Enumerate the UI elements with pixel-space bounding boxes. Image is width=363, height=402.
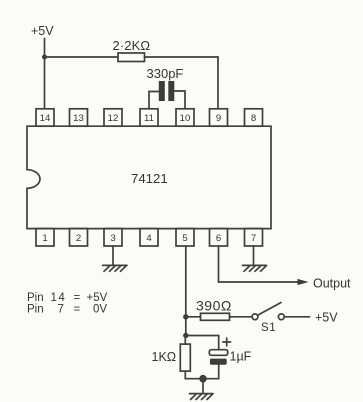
svg-text:1KΩ: 1KΩ	[152, 350, 177, 364]
pin 9	[210, 109, 228, 126]
node: pin 5 / R2 junction	[183, 314, 188, 319]
svg-text:12: 12	[108, 113, 119, 124]
switch S1 right contact	[278, 314, 284, 320]
pin 3	[104, 229, 122, 246]
wire pin 3 to ground	[112, 246, 114, 265]
svg-text:390Ω: 390Ω	[196, 298, 232, 314]
IC U1 74121 body outline with notch	[27, 126, 271, 228]
wire corner down to pin 9	[217, 57, 219, 109]
capacitor C1 right plate	[168, 81, 174, 101]
wire S1 to +5V	[284, 316, 309, 318]
pin 11	[140, 109, 158, 126]
svg-text:+5V: +5V	[31, 24, 54, 38]
wire junction down to R3	[184, 336, 186, 345]
pin 10	[176, 109, 194, 126]
svg-text:8: 8	[251, 113, 256, 124]
wire C2 to bottom rail	[218, 365, 220, 379]
resistor R2 body (390)	[201, 313, 230, 320]
svg-text:2·2KΩ: 2·2KΩ	[113, 38, 151, 53]
wire pin 11 to C1 left plate	[149, 92, 159, 109]
svg-text:330pF: 330pF	[147, 66, 184, 81]
wire R3 to bottom rail	[184, 371, 186, 379]
wire ground junction down	[202, 379, 204, 394]
wire junction to C2 branch	[186, 335, 219, 337]
svg-text:6: 6	[216, 233, 221, 244]
node: R3/C2 junction	[183, 333, 188, 338]
wire +5V rail down to pin 14	[44, 39, 46, 109]
svg-text:1: 1	[42, 233, 47, 244]
pin 13	[70, 109, 88, 126]
pin 8	[245, 109, 263, 126]
ground (below pin 3)	[103, 265, 128, 271]
wire pin 7 to ground	[253, 246, 255, 265]
svg-text:2: 2	[76, 233, 81, 244]
svg-text:1µF: 1µF	[230, 350, 252, 364]
svg-text:11: 11	[144, 113, 154, 124]
wire pin 10 to C1 right plate	[174, 91, 185, 109]
wire junction to R2	[186, 316, 201, 318]
switch S1 left contact	[252, 314, 258, 320]
svg-text:Output: Output	[313, 277, 351, 291]
svg-text:S1: S1	[261, 322, 276, 334]
capacitor C1 left plate	[159, 81, 165, 101]
wire pin 5 down to RC network	[185, 246, 187, 336]
bottom rail wire	[185, 378, 218, 380]
output arrowhead	[298, 279, 309, 285]
svg-text:13: 13	[73, 113, 84, 124]
svg-text:9: 9	[216, 113, 221, 124]
capacitor C2 positive plate	[209, 350, 227, 356]
ground (below pin 7)	[243, 265, 267, 271]
pin 4	[140, 229, 158, 246]
wire pin 6 down and right to output	[219, 246, 300, 282]
svg-text:74121: 74121	[131, 171, 168, 186]
svg-text:14: 14	[40, 113, 51, 124]
C2 polarity + sign	[223, 338, 231, 346]
node: ground junction	[199, 375, 207, 383]
pin 1	[36, 229, 54, 246]
svg-text:4: 4	[146, 233, 152, 244]
node: +5V junction at pin 14	[42, 55, 47, 60]
ground (bottom)	[190, 394, 214, 400]
svg-text:+5V: +5V	[315, 311, 338, 325]
pin 5	[176, 229, 194, 246]
pin 2	[70, 229, 88, 246]
pin 6	[210, 229, 228, 246]
pin 12	[104, 109, 122, 126]
resistor R1 body (2.2k)	[118, 53, 145, 62]
wire R1 to corner above pin 9	[145, 56, 219, 58]
pin 7	[245, 229, 263, 246]
switch S1 arm	[258, 303, 281, 316]
wire down to C2 positive plate	[218, 336, 220, 350]
pin 14	[36, 109, 54, 126]
svg-text:3: 3	[110, 233, 115, 244]
svg-text:5: 5	[182, 233, 187, 244]
wire R2 to switch S1	[230, 316, 253, 318]
capacitor C2 negative plate	[210, 359, 227, 365]
wire +5V junction to R1	[45, 56, 119, 58]
resistor R3 body (1k)	[180, 344, 190, 371]
svg-text:7: 7	[251, 233, 256, 244]
svg-text:10: 10	[180, 113, 191, 124]
